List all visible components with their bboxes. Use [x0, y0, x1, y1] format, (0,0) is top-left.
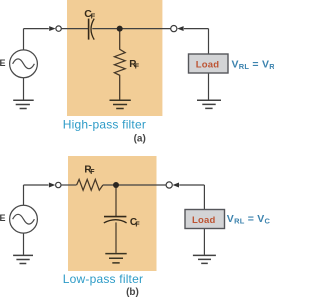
svg-text:E: E — [0, 213, 6, 223]
svg-text:VRL = VRF: VRL = VRF — [232, 59, 275, 72]
svg-text:F: F — [91, 11, 96, 20]
svg-text:(b): (b) — [126, 287, 139, 298]
svg-text:Low-pass filter: Low-pass filter — [63, 272, 143, 286]
svg-text:High-pass filter: High-pass filter — [63, 117, 146, 131]
svg-text:F: F — [90, 169, 95, 176]
svg-text:E: E — [0, 58, 6, 68]
svg-text:Load: Load — [192, 215, 216, 226]
svg-text:(a): (a) — [134, 134, 146, 145]
svg-text:Load: Load — [196, 60, 220, 71]
svg-text:F: F — [135, 63, 140, 70]
svg-text:VRL = VC: VRL = VC — [227, 213, 271, 226]
svg-text:F: F — [135, 222, 140, 229]
